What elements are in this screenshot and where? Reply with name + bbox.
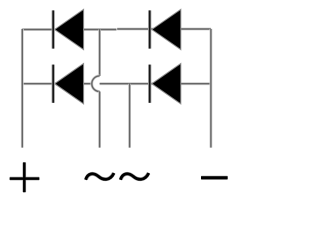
wire: second row horizontal, right part (100, 82, 211, 85)
wire: left rail down to + terminal (21, 29, 24, 148)
wire: second row horizontal, left part (ends at hop arc) (22, 82, 92, 85)
wire: top row horizontal bus, left section (22, 28, 116, 31)
wire: top row horizontal bus, right section (slight step up) (117, 28, 211, 31)
diode D3 (second row left, pointing left) (53, 64, 83, 104)
terminal label: - (DC negative) (201, 176, 228, 180)
wire: right rail down to - terminal (209, 29, 212, 148)
terminal label: ~ (AC input 2) (120, 173, 148, 180)
terminal label: ~ (AC input 1) (86, 173, 114, 180)
diode D1 (top-left, pointing left) (53, 9, 83, 49)
diode D2 (top-right, pointing left) (150, 9, 181, 49)
wire: middle vertical 1 upper segment (junction at top bus) (98, 30, 101, 76)
wire: middle vertical 2 (second row junction down to second ~ terminal) (128, 84, 131, 148)
diode D4 (second row right, pointing left) (150, 64, 181, 104)
terminal label: + (DC positive) (10, 162, 40, 192)
wire hop: semicircle jumping over second row wire (92, 76, 100, 92)
wire: middle vertical 1 lower segment (down to first ~ terminal) (98, 92, 101, 148)
